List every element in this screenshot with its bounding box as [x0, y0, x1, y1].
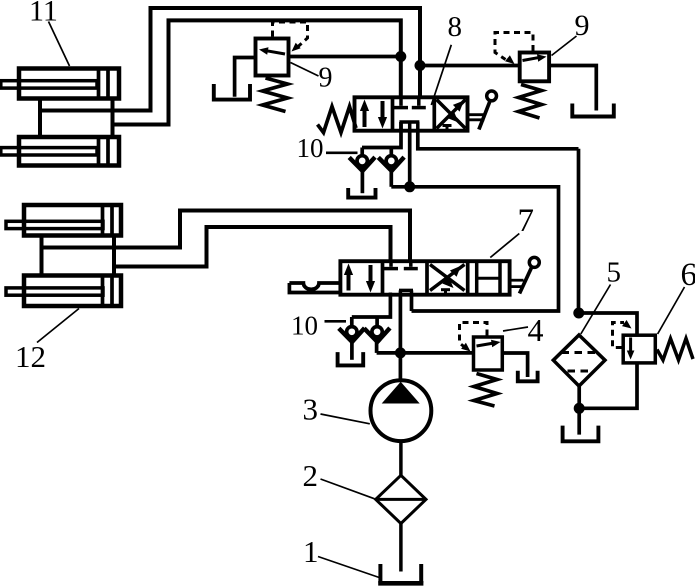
cylinder 12a piston: [103, 204, 113, 238]
wire: valve 6 outlet down to tank junction: [579, 363, 637, 408]
wire: valve 7 port to check valves 10 lower: [352, 295, 391, 317]
valve 7 center position blocked ports: [384, 261, 418, 268]
tank under valve 9 right: [572, 104, 614, 117]
wire: cyl 11 port A to valve 8 via top bus 1: [40, 8, 420, 111]
label 4: [503, 312, 544, 348]
check valve 10 upper right: [378, 148, 404, 187]
label 9 right: [552, 9, 590, 56]
relief valve 9 right pilot dashed line: [495, 33, 533, 65]
pump 3: [371, 380, 432, 441]
cylinder group 12 connection bars: [42, 234, 115, 278]
svg-text:4: 4: [528, 312, 544, 348]
check valve 10 upper left: [349, 148, 375, 194]
wire: cyl 11 port B to valve 8 via top bus 2: [113, 20, 401, 124]
wire: valve 7 right leg to supply loop: [410, 295, 414, 311]
svg-text:10: 10: [297, 133, 324, 163]
label 10 upper: [297, 133, 358, 163]
valve 8 lever: [468, 91, 497, 130]
cylinder 11a rod: [1, 81, 97, 88]
valve 8 dividers: [393, 97, 435, 130]
cylinder group 11 connection bars: [40, 97, 113, 140]
cylinder 12b piston: [103, 274, 113, 308]
wire: filter 5 bottom to tank junction: [577, 386, 581, 435]
label 8: [431, 11, 462, 105]
node: riser A junction: [396, 52, 406, 62]
wire: valve 9 right outlet to tank: [549, 66, 596, 111]
label 5: [581, 257, 621, 335]
valve 7 left position arrows: [344, 264, 375, 293]
cylinder 12a rod: [6, 221, 103, 228]
wire: junction to valve 7 supply loop: [391, 187, 558, 311]
relief valve 9 right spring: [519, 85, 542, 119]
wire: valve 8 T port to filter line: [418, 131, 579, 149]
label 11: [29, 0, 70, 66]
label 6: [658, 257, 695, 334]
wire: lower check to pump junction to valve 4: [377, 351, 474, 355]
label 1: [303, 534, 379, 578]
valve 8 spring: [318, 107, 357, 133]
check valve 10 lower left: [339, 317, 365, 360]
label 3: [303, 392, 370, 427]
valve 7 dividers: [383, 261, 468, 295]
tank 1: [378, 564, 423, 583]
wire: valve 9 left outlet to tank: [235, 58, 257, 97]
svg-text:5: 5: [607, 257, 622, 289]
valve 6 pilot dashed line: [613, 320, 632, 348]
relief valve 9 right body: [520, 53, 549, 82]
node: filter 5 top junction: [574, 308, 584, 318]
tank under valve 4: [518, 371, 538, 382]
svg-text:6: 6: [681, 257, 695, 293]
relief valve 4 spring: [474, 374, 497, 407]
valve 7 detent plate: [289, 283, 340, 293]
valve 6 spring: [657, 339, 693, 361]
cylinder 11b rod: [1, 148, 97, 155]
valve 8 center position bottom bridge: [399, 122, 419, 131]
node: pump outlet junction: [395, 348, 405, 358]
valve 7 center position bottom bridge: [390, 290, 413, 294]
valve 8 center position blocked ports: [394, 97, 426, 107]
cylinder 12b rod: [6, 288, 103, 295]
node: pump line junction upper: [405, 182, 415, 192]
cylinder 11b piston: [99, 136, 109, 168]
tank under filter 5: [563, 426, 599, 442]
svg-text:7: 7: [518, 203, 535, 239]
label 9 left: [291, 63, 333, 94]
wire: valve 8 P port down: [408, 131, 412, 187]
valve 7 fourth position: [477, 261, 500, 295]
svg-text:8: 8: [448, 11, 463, 43]
back pressure valve 6 body: [623, 335, 655, 363]
wire: valve 8 port to check valves 10 upper: [362, 122, 401, 148]
relief valve 9 left pilot dashed line: [273, 22, 308, 52]
relief valve 9 left body: [256, 39, 289, 76]
svg-text:9: 9: [319, 63, 333, 94]
relief valve 9 right arrow: [523, 54, 547, 62]
label 10 lower: [291, 311, 346, 341]
cylinder 11a barrel: [19, 69, 119, 99]
node: tank line junction: [574, 403, 584, 413]
relief valve 9 left spring: [263, 78, 288, 112]
relief valve 4 arrow: [477, 340, 501, 348]
wire: pump to filter 2: [399, 441, 403, 475]
wire: cyl 12 port D to valve 7: [114, 227, 391, 267]
wire: riser B to relief valve 9 right: [420, 64, 518, 68]
tank under check valves 10 lower: [338, 352, 364, 365]
tank under check valves 10 upper: [348, 188, 375, 198]
wire: relief valve 9 left to riser A: [289, 55, 401, 59]
wire: valve 7 P port down to pump: [399, 295, 403, 381]
cylinder 11a piston: [99, 67, 109, 100]
check valve 10 lower right: [364, 317, 390, 353]
valve 8 right position crossed arrows: [437, 100, 466, 131]
valve 8 body: [355, 97, 468, 130]
svg-text:9: 9: [575, 9, 590, 42]
svg-text:11: 11: [29, 0, 58, 28]
svg-text:10: 10: [291, 311, 318, 341]
wire: junction to valve 6: [579, 313, 637, 335]
wire: filter line down to filter 5: [577, 149, 581, 313]
wire: cyl 12 port C to valve 7: [42, 211, 411, 262]
svg-text:12: 12: [15, 339, 46, 374]
svg-text:2: 2: [303, 458, 319, 493]
relief valve 4 pilot dashed line: [460, 323, 488, 352]
relief valve 4 body: [474, 337, 503, 370]
filter 5: [553, 335, 605, 386]
cylinder 12b barrel: [24, 276, 121, 307]
node: riser B junction: [415, 61, 425, 71]
valve 6 arrow: [627, 338, 635, 360]
valve 7 body: [340, 261, 509, 295]
valve 7 crossed arrows position: [430, 265, 465, 295]
svg-text:1: 1: [303, 534, 319, 569]
relief valve 9 left arrow: [259, 47, 285, 55]
svg-text:3: 3: [303, 392, 319, 427]
valve 7 lever: [510, 257, 540, 293]
label 12: [15, 309, 79, 375]
wire: filter 2 to tank 1: [399, 524, 403, 572]
label 7: [490, 203, 534, 258]
tank under valve 9 left: [214, 84, 250, 100]
cylinder 12a barrel: [24, 205, 121, 236]
wire: valve 4 outlet to tank: [502, 353, 527, 377]
filter 2: [376, 475, 426, 523]
valve 8 left position arrows: [360, 100, 387, 129]
label 2: [303, 458, 375, 499]
cylinder 11b barrel: [19, 137, 119, 166]
